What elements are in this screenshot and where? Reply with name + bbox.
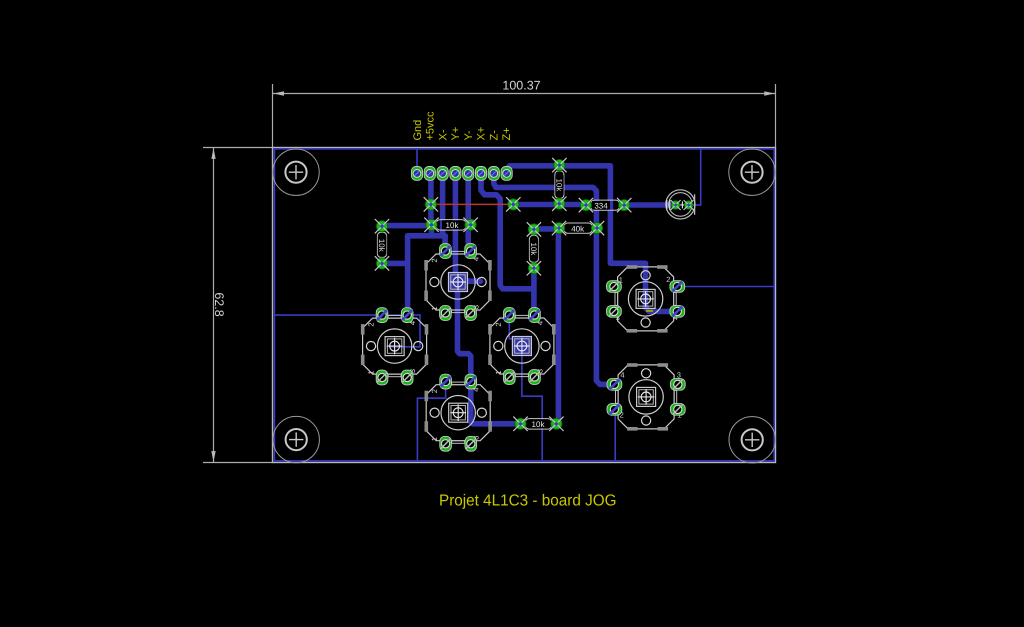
svg-text:2: 2 — [430, 389, 439, 393]
svg-text:Y-: Y- — [463, 130, 475, 140]
svg-text:10k: 10k — [446, 221, 460, 230]
svg-text:10k: 10k — [532, 420, 546, 429]
svg-text:10k: 10k — [377, 239, 386, 253]
svg-text:2: 2 — [666, 275, 670, 284]
svg-text:10k: 10k — [555, 178, 564, 192]
svg-text:1: 1 — [430, 306, 439, 310]
svg-text:Projet 4L1C3 - board JOG: Projet 4L1C3 - board JOG — [439, 493, 617, 510]
svg-text:2: 2 — [494, 322, 503, 326]
svg-text:334: 334 — [594, 201, 608, 210]
svg-text:1: 1 — [367, 371, 376, 375]
svg-text:2: 2 — [367, 323, 376, 327]
svg-text:100.37: 100.37 — [502, 79, 540, 93]
svg-text:10k: 10k — [529, 242, 538, 256]
svg-text:1: 1 — [430, 437, 439, 441]
svg-text:Gnd: Gnd — [412, 120, 424, 141]
svg-text:X+: X+ — [476, 127, 488, 141]
svg-text:Y+: Y+ — [450, 127, 462, 141]
svg-text:Z+: Z+ — [501, 127, 513, 140]
svg-text:62.8: 62.8 — [212, 292, 226, 316]
svg-text:Z-: Z- — [489, 130, 501, 141]
svg-text:1: 1 — [494, 370, 503, 374]
svg-text:+5vcc: +5vcc — [425, 111, 437, 141]
svg-text:2: 2 — [430, 258, 439, 262]
svg-text:4: 4 — [620, 371, 624, 380]
svg-text:40k: 40k — [571, 225, 585, 234]
svg-text:X-: X- — [438, 129, 450, 140]
